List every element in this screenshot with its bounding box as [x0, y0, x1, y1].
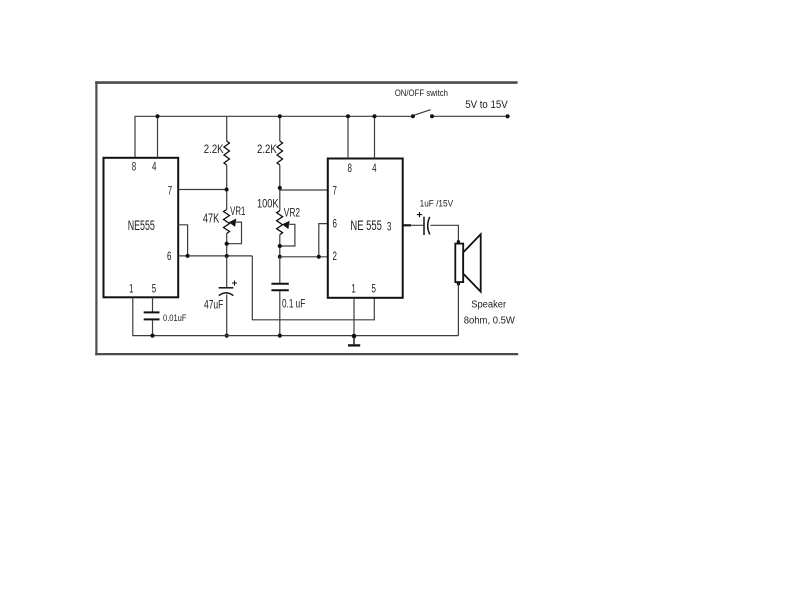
switch S1 lever — [413, 110, 430, 116]
wire U1 pin2 tie stub — [178, 225, 187, 256]
svg-text:Speaker: Speaker — [471, 299, 507, 310]
wire resistor R2 top lead — [279, 116, 281, 141]
node C3 ground rail junction — [278, 334, 282, 338]
speaker LS1 driver body — [455, 244, 463, 283]
wire U1 pin5 lead — [152, 297, 154, 311]
svg-text:0.01uF: 0.01uF — [163, 312, 186, 323]
svg-text:2: 2 — [332, 250, 337, 263]
node ground junction — [352, 334, 357, 339]
svg-text:6: 6 — [167, 250, 172, 263]
capacitor C2 47uF top plate — [219, 287, 234, 289]
wire U1 pin1 to ground rail — [133, 297, 459, 335]
wire U2 pin3 thick stub — [403, 224, 411, 226]
svg-text:VR2: VR2 — [284, 207, 300, 220]
svg-text:5V to 15V: 5V to 15V — [465, 99, 508, 110]
potentiometer VR2 100K zigzag — [277, 211, 283, 235]
wire VR1 wiper loop — [227, 222, 242, 244]
svg-text:1: 1 — [129, 283, 134, 296]
wire C1 bottom lead — [152, 320, 154, 335]
node supply end — [506, 114, 510, 118]
node U1 pin7 junction — [225, 188, 229, 192]
wire C3 bottom lead — [279, 291, 281, 335]
capacitor C4 1uF left plate — [423, 217, 425, 235]
svg-text:8: 8 — [347, 163, 352, 176]
capacitor C1 0.01uF top plate — [144, 311, 160, 313]
capacitor C2 47uF curved plate — [219, 293, 233, 296]
wire U1 pin4 to rail — [157, 116, 159, 158]
svg-text:4: 4 — [152, 161, 157, 174]
node speaker top terminal — [457, 240, 460, 243]
svg-text:2.2K: 2.2K — [204, 143, 224, 156]
svg-text:ON/OFF switch: ON/OFF switch — [395, 87, 448, 98]
svg-text:2.2K: 2.2K — [257, 143, 277, 156]
wire VCC rail left segment — [135, 116, 413, 158]
resistor R1 2.2K zigzag — [224, 141, 230, 165]
svg-text:47uF: 47uF — [204, 299, 223, 312]
wire C4 to speaker — [430, 225, 458, 242]
capacitor C4 1uF curved plate — [428, 217, 430, 235]
node VR2 bottom on pin2 line — [278, 255, 282, 259]
svg-text:NE 555: NE 555 — [350, 218, 381, 233]
svg-text:7: 7 — [332, 185, 337, 198]
node U2 pin8 rail junction — [346, 114, 350, 118]
node VR2 wiper junction — [278, 244, 282, 248]
border frame top — [95, 81, 517, 84]
wire U2 pin8 to rail — [347, 116, 349, 158]
capacitor C3 0.1uF top lead — [279, 257, 281, 283]
wire U1 cv to U2 pin5 link — [252, 256, 374, 320]
capacitor C1 0.01uF bottom plate — [144, 318, 160, 320]
wire U2 pin1 to ground — [353, 298, 355, 336]
svg-text:5: 5 — [371, 283, 376, 296]
node U2 pin4 rail junction — [373, 114, 377, 118]
node R2 rail junction — [278, 114, 282, 118]
node speaker bottom terminal — [457, 282, 460, 285]
wire resistor R1 top lead — [226, 116, 228, 141]
capacitor C3 0.1uF bottom plate — [271, 289, 288, 291]
node VR1 wiper junction — [225, 242, 229, 246]
node VR1 bottom on pin6 line — [225, 254, 229, 258]
wire U1 pin6 line — [178, 255, 252, 257]
op-amp U1 (NE555 IC1) body — [104, 158, 179, 297]
svg-text:0.1 uF: 0.1 uF — [282, 298, 305, 311]
svg-text:100K: 100K — [257, 198, 279, 210]
wire VR2 wiper loop — [280, 224, 295, 246]
wire U2 pin4 to rail — [374, 116, 376, 158]
switch S1 left contact — [411, 114, 415, 118]
ground symbol — [353, 336, 355, 344]
svg-text:VR1: VR1 — [230, 206, 246, 219]
border frame left — [95, 81, 97, 355]
svg-text:7: 7 — [168, 185, 173, 198]
capacitor C4 plus sign — [417, 212, 422, 217]
wire resistor R2 bottom lead — [279, 165, 281, 211]
wire U2 pin2 line — [280, 256, 328, 258]
potentiometer VR1 47K zigzag — [224, 210, 230, 234]
capacitor C2 47uF top lead — [226, 256, 228, 288]
capacitor C3 0.1uF top plate — [271, 283, 288, 285]
wire VR1 bottom lead — [226, 234, 228, 257]
node U1 pin6 junction — [186, 254, 190, 258]
svg-text:8ohm, 0.5W: 8ohm, 0.5W — [464, 315, 516, 327]
node C2 ground rail junction — [225, 334, 229, 338]
svg-text:1: 1 — [351, 283, 356, 296]
node U2 pin6 tie junction — [317, 255, 321, 259]
wire U2 pin7 to R2 — [280, 189, 328, 191]
node U2 pin7 junction — [278, 186, 282, 190]
border frame bottom — [95, 353, 518, 355]
node C1 ground rail junction — [150, 334, 154, 338]
svg-text:3: 3 — [387, 221, 392, 234]
svg-text:47K: 47K — [203, 212, 220, 226]
wire C2 bottom lead — [226, 295, 228, 336]
svg-text:6: 6 — [332, 218, 337, 231]
svg-text:4: 4 — [372, 163, 377, 176]
wire speaker to ground rail — [457, 284, 459, 336]
svg-text:1uF /15V: 1uF /15V — [420, 198, 454, 209]
svg-text:NE555: NE555 — [128, 219, 155, 233]
svg-text:8: 8 — [132, 161, 137, 174]
wire VR2 bottom lead — [279, 235, 281, 257]
wire U2 pin6 tie stub — [319, 224, 328, 257]
op-amp U2 (NE555 IC2) body — [328, 159, 403, 298]
potentiometer VR1 wiper arrow — [229, 219, 236, 227]
wire resistor R1 bottom lead — [226, 165, 228, 210]
switch S1 right contact — [430, 114, 434, 118]
potentiometer VR2 wiper arrow — [282, 221, 289, 229]
node U1 pin4 rail junction — [156, 114, 160, 118]
wire U2 pin3 output lead — [403, 224, 424, 226]
svg-text:5: 5 — [152, 283, 157, 296]
capacitor C2 plus sign — [232, 281, 237, 286]
speaker LS1 cone — [463, 234, 481, 291]
wire VCC rail right segment (after switch) — [432, 115, 508, 117]
wire U1 pin7 to R1 — [178, 189, 227, 191]
resistor R2 2.2K zigzag — [277, 141, 283, 165]
